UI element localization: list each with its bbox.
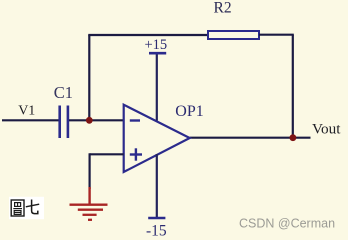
wire op-amp plus input horizontal xyxy=(90,153,124,155)
svg-text:R2: R2 xyxy=(214,0,232,17)
power +15 stem xyxy=(156,53,158,120)
wire to ground vertical xyxy=(88,153,90,189)
capacitor C1 xyxy=(60,106,68,139)
node junction at C1 / feedback xyxy=(86,117,93,124)
svg-text:V1: V1 xyxy=(18,103,35,118)
wire V1 input to C1 xyxy=(2,119,59,121)
op-amp U1 triangle xyxy=(124,105,190,172)
wire feedback vertical right xyxy=(292,35,294,138)
ground xyxy=(70,187,108,220)
power -15 stem xyxy=(156,154,158,218)
power -15 bar xyxy=(148,217,165,220)
svg-text:+15: +15 xyxy=(145,37,168,53)
svg-text:C1: C1 xyxy=(54,83,73,102)
wire R2 right xyxy=(259,34,294,36)
svg-text:OP1: OP1 xyxy=(175,103,203,120)
op-amp non-inverting input plus sign xyxy=(130,148,142,160)
wire op-amp output to Vout xyxy=(190,137,311,139)
wire feedback top horizontal xyxy=(88,34,208,36)
svg-text:Vout: Vout xyxy=(312,121,341,138)
wire feedback vertical left xyxy=(88,35,90,121)
figure label box (圖七) xyxy=(9,197,44,219)
svg-text:CSDN @Cerman: CSDN @Cerman xyxy=(239,216,335,230)
node junction at output xyxy=(290,134,297,141)
power +15 bar xyxy=(149,52,166,55)
wire C1 to op-amp inverting input xyxy=(69,119,124,121)
svg-text:-15: -15 xyxy=(146,223,167,240)
figure label character 七 xyxy=(26,200,39,214)
figure label character 圖 xyxy=(11,200,24,216)
resistor R2 xyxy=(208,31,259,39)
op-amp inverting input minus sign xyxy=(130,119,140,121)
